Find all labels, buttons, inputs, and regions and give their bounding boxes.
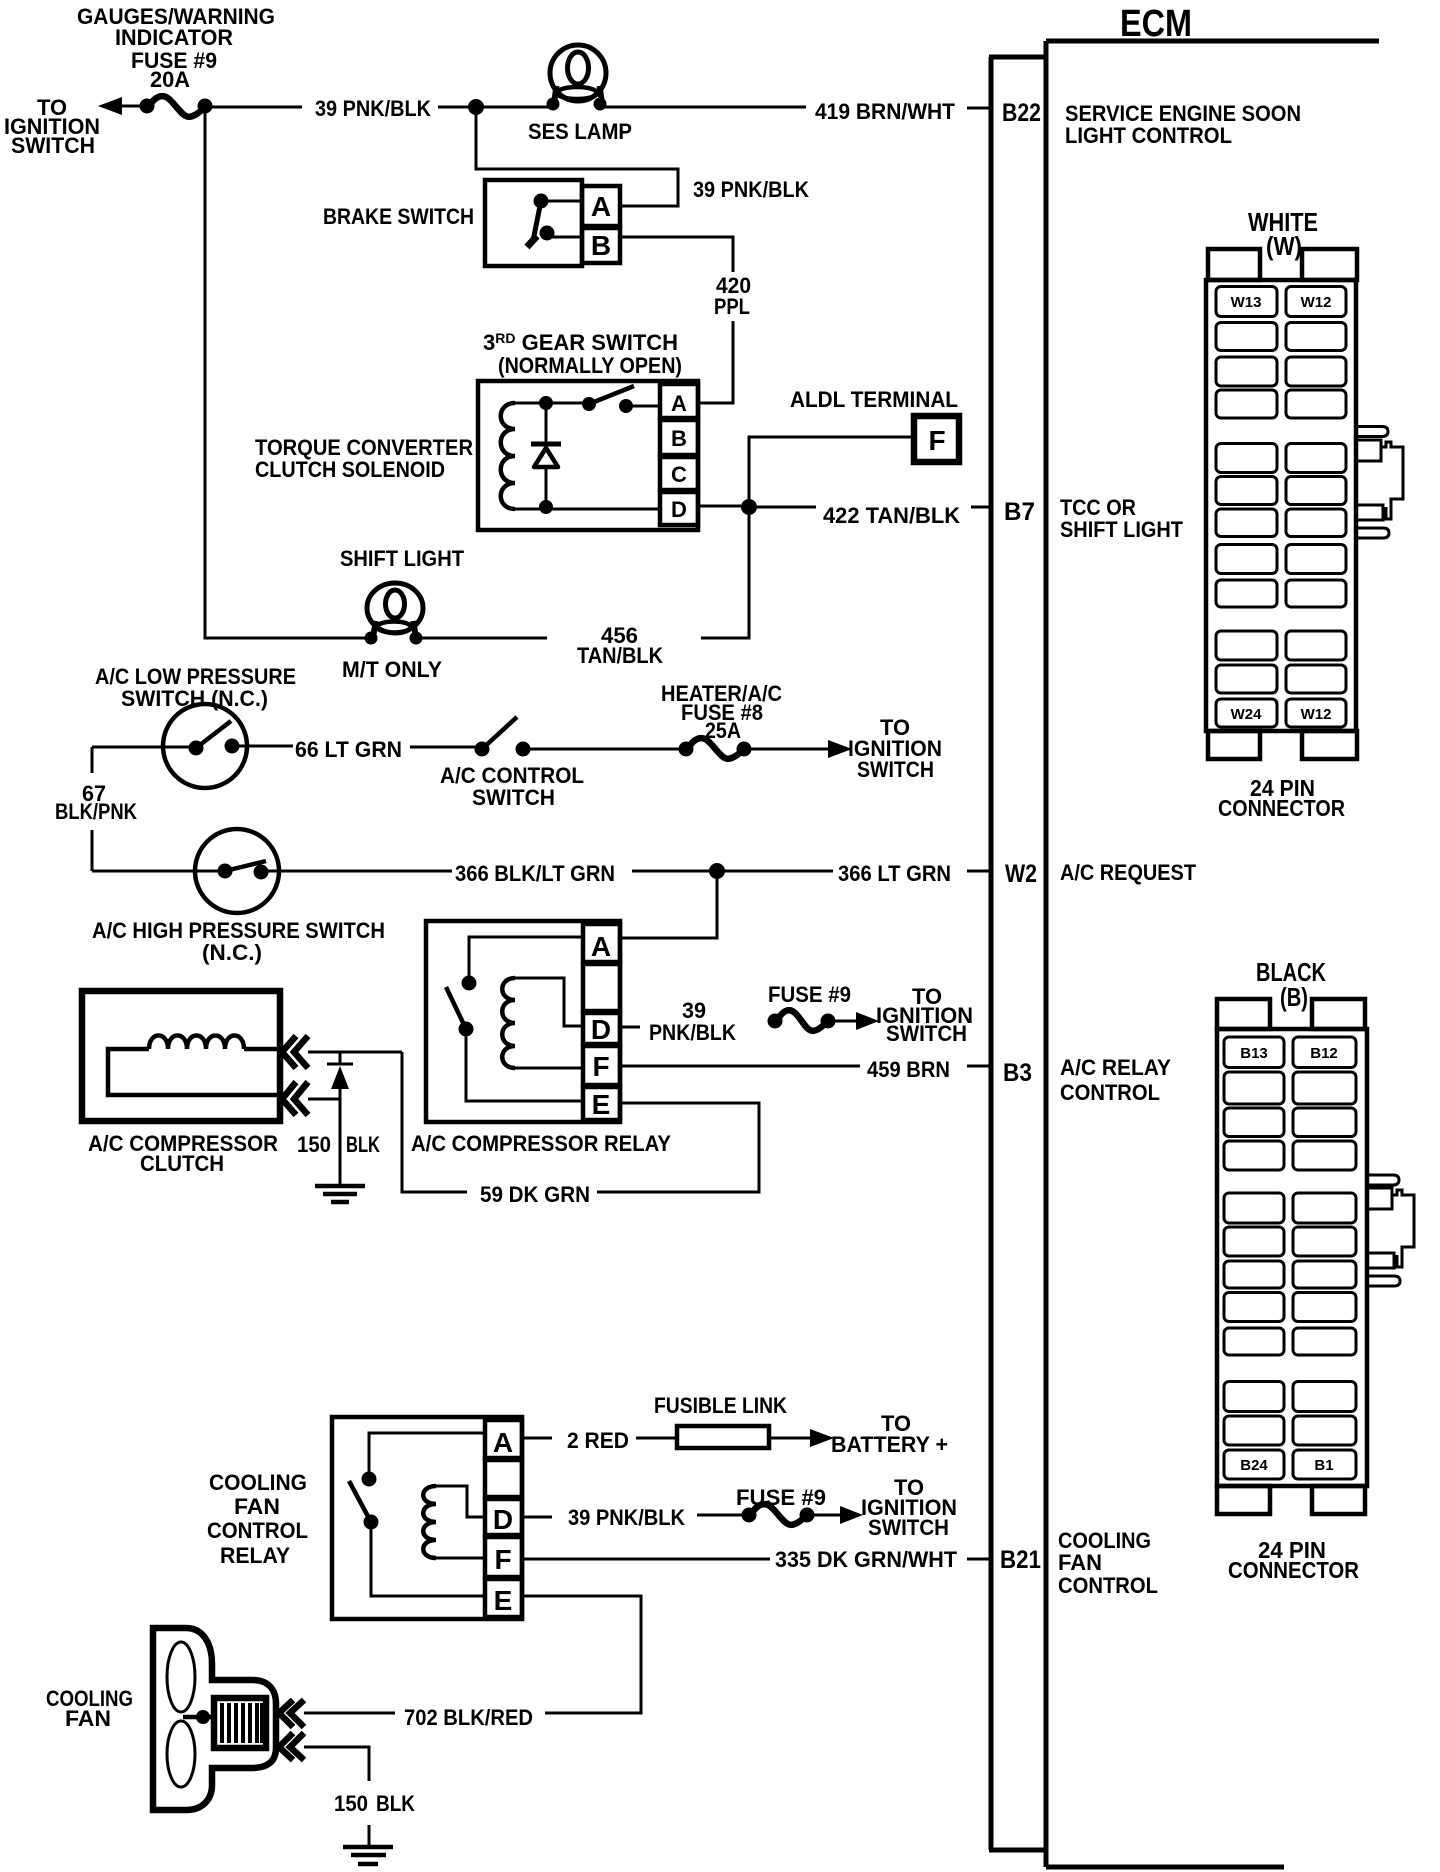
wire 702 to fan [304,1712,395,1715]
wire 456 to shift light [417,637,547,640]
wire tick at pin B22 [967,107,990,110]
svg-text:B13: B13 [1240,1045,1268,1062]
fan blade lower [167,1721,195,1787]
wire junction to 366 LT GRN label [717,870,833,873]
label 67 BLK/PNK [55,781,137,824]
svg-text:150: 150 [297,1132,331,1157]
svg-text:CLUTCH SOLENOID: CLUTCH SOLENOID [255,457,445,482]
svg-text:ALDL TERMINAL: ALDL TERMINAL [790,387,958,412]
svg-text:LIGHT CONTROL: LIGHT CONTROL [1065,123,1232,148]
svg-text:39 PNK/BLK: 39 PNK/BLK [568,1505,685,1530]
label 3RD GEAR SWITCH (NORMALLY OPEN) [483,330,682,378]
wire 39 PNK/BLK (top run) [205,106,302,109]
fan chevrons upper [279,1700,304,1727]
wire junction down to brake switch pin A [476,107,678,206]
ECM left boundary line [1044,41,1049,1867]
fan motor stripes [222,1703,262,1743]
svg-text:CONTROL: CONTROL [1058,1573,1158,1598]
svg-text:(N.C.): (N.C.) [202,940,262,965]
A/C relay coil [502,978,583,1068]
wire pin E down [522,1596,641,1713]
svg-text:66 LT GRN: 66 LT GRN [295,737,402,762]
svg-text:SWITCH: SWITCH [868,1515,949,1540]
wire tcc pin D to junction [698,505,749,508]
fuse F8 [679,738,752,759]
svg-text:W12: W12 [1301,294,1332,311]
arrow to ignition switch (heater fuse) [744,740,852,758]
label COOLING FAN [46,1686,133,1731]
svg-text:(W): (W) [1266,231,1302,261]
wire junction down to relay pin A [622,871,717,938]
svg-text:CONNECTOR: CONNECTOR [1228,1557,1359,1583]
tcc pin A [660,384,698,418]
svg-text:W24: W24 [1231,706,1263,723]
wire tick at pin B7 [971,506,990,509]
svg-text:B7: B7 [1004,498,1035,526]
svg-text:SHIFT LIGHT: SHIFT LIGHT [340,546,465,571]
svg-text:CLUTCH: CLUTCH [140,1151,224,1176]
svg-text:D: D [591,1014,611,1045]
node tcc coil top [539,396,553,410]
fan relay coil [423,1486,485,1558]
tcc coil [501,403,515,509]
white connector bottom tabs [1208,731,1357,759]
svg-text:366 LT GRN: 366 LT GRN [838,861,951,886]
A/C relay pin A [583,924,620,962]
ALDL terminal F box [914,416,959,462]
svg-text:A: A [493,1427,513,1458]
black connector body [1217,1029,1367,1486]
label 39 PNK/BLK (relay D) [649,998,736,1045]
wire pin E to 59 DK GRN [597,1103,759,1192]
svg-text:(B): (B) [1280,982,1308,1012]
svg-text:W13: W13 [1231,294,1262,311]
arrow to battery [769,1429,834,1447]
svg-text:366 BLK/LT GRN: 366 BLK/LT GRN [455,861,615,886]
wire junction down to 456 [701,507,749,638]
label TORQUE CONVERTER CLUTCH SOLENOID [255,435,473,482]
svg-text:D: D [671,497,687,522]
clutch coil [149,1036,244,1050]
tcc pin C [660,457,698,490]
white connector cells column 1 [1216,287,1277,728]
brake switch contacts and lever [527,194,582,248]
fan relay pin F [485,1537,522,1577]
label FUSE #9 20A (top) [131,48,217,92]
label WHITE (W) [1248,207,1318,261]
svg-text:FAN: FAN [1058,1550,1102,1575]
label 150 BLK (clutch) [297,1132,380,1157]
svg-text:INDICATOR: INDICATOR [115,25,233,50]
tcc internal top wire [515,402,589,405]
label 150 BLK (fan) [334,1791,415,1816]
svg-text:PNK/BLK: PNK/BLK [649,1020,736,1045]
fan hub [183,1710,211,1724]
A/C relay pin blank [583,964,620,1011]
A/C compressor relay body [426,921,620,1122]
clutch chevrons upper [282,1036,308,1068]
svg-text:BRAKE SWITCH: BRAKE SWITCH [323,204,474,229]
svg-text:(NORMALLY OPEN): (NORMALLY OPEN) [498,353,682,378]
label TCC OR SHIFT LIGHT [1060,495,1184,542]
wire junction up to ALDL [749,437,912,507]
svg-text:M/T ONLY: M/T ONLY [342,657,442,682]
wire pin F to 335 [522,1558,770,1561]
svg-text:D: D [493,1504,513,1535]
svg-text:20A: 20A [150,67,190,92]
fuse F9 (A/C relay) [768,1010,836,1031]
wire 66 to A/C control switch [410,746,482,749]
tcc pin B [660,420,698,455]
fan relay pin blank [485,1460,522,1497]
ECM pin strip [989,57,1046,1850]
svg-text:CONNECTOR: CONNECTOR [1218,795,1345,821]
wire 150 BLK (fan) [304,1747,369,1846]
label TO IGNITION SWITCH (heater) [848,715,942,782]
A/C relay switch [446,937,583,1101]
fan chevrons lower [279,1733,304,1760]
A/C high pressure switch [92,829,452,913]
wire label to junction [438,106,476,109]
wire junction to lamp [476,106,552,109]
svg-text:F: F [494,1544,511,1575]
svg-text:702 BLK/RED: 702 BLK/RED [404,1705,533,1730]
cooling fan body [153,1628,276,1810]
svg-text:39 PNK/BLK: 39 PNK/BLK [693,177,809,202]
ECM bottom boundary line [1046,1865,1284,1870]
ground clutch [315,1186,365,1202]
torque converter clutch solenoid body [478,381,698,530]
fusible link [677,1426,769,1448]
black connector key [1367,1175,1414,1286]
arrow to ignition switch (A/C relay) [828,1012,879,1030]
svg-text:B3: B3 [1003,1059,1032,1087]
black connector cells column 1 [1224,1037,1284,1479]
svg-text:150: 150 [334,1791,368,1816]
label A/C LOW PRESSURE SWITCH (N.C.) [95,664,296,711]
arrow to ignition (fan fuse) [807,1506,863,1524]
wire 420 PPL to 3rd gear pin A [699,321,733,403]
svg-text:FUSIBLE LINK: FUSIBLE LINK [654,1393,787,1418]
black connector bottom tabs [1217,1486,1365,1514]
svg-text:SWITCH: SWITCH [857,757,934,782]
white connector top tabs [1208,249,1357,280]
lamp SES LAMP [547,45,607,111]
svg-text:E: E [494,1585,513,1616]
svg-text:B: B [671,426,687,451]
node tcc coil bottom [539,500,553,514]
brake switch pin A [582,186,620,226]
svg-text:BATTERY +: BATTERY + [831,1432,948,1457]
label TO IGNITION SWITCH (A/C relay) [876,984,973,1046]
svg-text:CONTROL: CONTROL [1060,1080,1160,1105]
svg-text:B12: B12 [1310,1045,1338,1062]
svg-text:419 BRN/WHT: 419 BRN/WHT [815,99,956,124]
fan blade upper [167,1642,195,1712]
svg-text:W2: W2 [1005,860,1037,888]
A/C relay pin E [583,1087,620,1120]
node junction 422 [741,499,757,515]
wire lamp to 419 label [601,106,806,109]
svg-text:FAN: FAN [234,1494,280,1519]
label 24 PIN CONNECTOR (white) [1218,775,1345,821]
svg-text:A: A [591,191,611,222]
svg-text:59 DK GRN: 59 DK GRN [480,1182,590,1207]
fan relay switch [349,1433,485,1596]
wire 67 BLK/PNK vertical [91,747,94,871]
clutch chevrons lower [282,1082,308,1115]
white connector cells column 2 [1286,287,1346,728]
label COOLING FAN CONTROL (ECM) [1058,1528,1158,1598]
svg-text:BLK: BLK [346,1132,380,1157]
tcc pin D [660,492,698,525]
label A/C HIGH PRESSURE SWITCH (N.C.) [92,918,385,965]
tcc internal bottom wire [515,505,660,509]
wire tick at pin B3 [967,1065,990,1068]
node junction 366 [709,863,725,879]
svg-text:459 BRN: 459 BRN [867,1057,950,1082]
svg-text:COOLING: COOLING [209,1470,307,1495]
wire pin A dash [522,1437,552,1440]
black connector top tabs [1217,999,1365,1029]
svg-text:CONTROL: CONTROL [207,1518,308,1543]
svg-text:FUSE #9: FUSE #9 [768,982,851,1007]
A/C low pressure switch [92,704,293,788]
fan relay pin A [485,1420,522,1458]
node junction below SES lamp [468,99,484,115]
svg-text:BLK: BLK [376,1791,415,1816]
wire tick at pin B21 [967,1558,990,1561]
label 420 PPL [714,273,751,319]
svg-text:A/C RELAY: A/C RELAY [1060,1055,1171,1080]
ECM top boundary line [1046,39,1379,44]
tcc diode [531,403,561,505]
label A/C COMPRESSOR CLUTCH [88,1131,278,1176]
wire to junction 366 [632,870,717,873]
label 456 TAN/BLK [577,623,663,668]
svg-text:B22: B22 [1002,99,1041,127]
svg-text:B21: B21 [1000,1546,1041,1574]
fan relay pin D [485,1499,522,1535]
wire pin D dash [522,1516,552,1519]
svg-text:B: B [591,230,611,261]
svg-text:B24: B24 [1240,1457,1268,1474]
A/C control switch [475,717,531,757]
svg-text:TAN/BLK: TAN/BLK [577,643,663,668]
diode clutch [327,1052,353,1184]
label 24 PIN CONNECTOR (black) [1228,1537,1359,1583]
wire pin F to 459 [622,1065,860,1068]
svg-text:335 DK GRN/WHT: 335 DK GRN/WHT [775,1547,958,1572]
svg-text:BLK/PNK: BLK/PNK [55,799,137,824]
label TO BATTERY + [831,1411,948,1457]
brake switch body [485,180,582,266]
svg-text:F: F [928,425,945,456]
svg-text:F: F [592,1051,609,1082]
svg-text:E: E [592,1089,611,1120]
label TO IGNITION SWITCH (top left) [4,95,100,158]
wire shift light to fuse vertical [205,106,371,638]
svg-text:C: C [671,462,687,487]
fuse F9 top [140,96,213,117]
wire clutch lower to diode [308,1098,340,1101]
svg-text:A: A [591,931,611,962]
clutch coil leads [108,1049,277,1095]
label COOLING FAN CONTROL RELAY [207,1470,308,1568]
svg-text:PPL: PPL [714,294,750,319]
svg-text:FAN: FAN [65,1706,111,1731]
label HEATER/A/C FUSE #8 25A [661,681,782,743]
svg-text:SHIFT LIGHT: SHIFT LIGHT [1060,517,1184,542]
A/C relay pin D [583,1013,620,1044]
black connector cells column 2 [1293,1037,1356,1479]
svg-text:SWITCH: SWITCH [472,785,555,810]
svg-text:SWITCH: SWITCH [11,133,95,158]
ground fan [343,1847,393,1864]
svg-text:FUSE #9: FUSE #9 [736,1485,826,1510]
wire tick at pin W2 [967,870,990,873]
brake switch pin B [582,228,620,263]
wire brake pin B to 420 PPL [620,237,733,272]
white connector body [1206,280,1356,731]
svg-text:A/C REQUEST: A/C REQUEST [1060,860,1196,885]
wire to fan fuse [697,1514,749,1517]
wire to heater fuse [523,748,686,751]
A/C compressor clutch body [82,991,280,1121]
label TO IGNITION SWITCH (fan) [861,1475,957,1540]
A/C relay pin F [583,1046,620,1085]
fuse F9 (fan) [742,1504,815,1525]
wire to fusible link [636,1437,677,1440]
wire clutch upper to vertical [308,1051,402,1054]
fan relay pin E [485,1579,522,1617]
svg-text:422 TAN/BLK: 422 TAN/BLK [823,503,960,528]
svg-text:A/C COMPRESSOR RELAY: A/C COMPRESSOR RELAY [411,1131,671,1156]
label SERVICE ENGINE SOON LIGHT CONTROL [1065,101,1301,148]
svg-text:B1: B1 [1314,1457,1333,1474]
wire pin D dash [622,1026,640,1029]
tcc switch [582,386,660,413]
arrow to ignition switch (top left) [98,97,147,115]
lamp shift light [365,583,424,645]
wire 59 DK GRN left segment [402,1052,467,1192]
svg-text:W12: W12 [1301,706,1332,723]
cooling fan relay body [332,1417,522,1619]
svg-text:SES LAMP: SES LAMP [528,119,632,144]
svg-text:39 PNK/BLK: 39 PNK/BLK [315,96,431,121]
white connector key [1356,427,1403,539]
fan motor box [214,1698,266,1748]
svg-text:A: A [671,391,687,416]
svg-text:2 RED: 2 RED [567,1428,629,1453]
label BLACK (B) [1256,957,1326,1012]
label A/C RELAY CONTROL [1060,1055,1171,1105]
svg-text:RELAY: RELAY [220,1543,290,1568]
wire junction to 422 label [749,506,816,509]
label A/C CONTROL SWITCH [440,763,584,810]
svg-text:SWITCH: SWITCH [886,1021,967,1046]
label GAUGES/WARNING INDICATOR [77,4,275,50]
